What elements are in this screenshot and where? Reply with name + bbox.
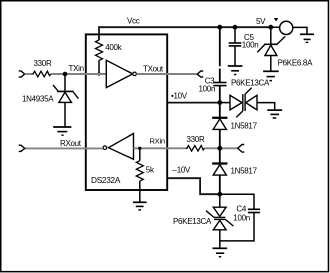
resistor R5 5k — [136, 161, 143, 181]
svg-text:1N5817: 1N5817 — [231, 167, 258, 176]
wire Z1 right lead — [257, 103, 275, 110]
wire -10V from box — [167, 178, 220, 194]
svg-text:•10V: •10V — [171, 91, 188, 100]
svg-text:P6KE13CA: P6KE13CA — [173, 217, 212, 226]
ground below R5 — [133, 201, 147, 203]
svg-text:TXout: TXout — [143, 65, 164, 74]
terminal RXin chevron — [238, 145, 245, 153]
node -10V junction — [217, 192, 222, 197]
wire C4 top branch — [220, 194, 254, 209]
svg-text:DS232A: DS232A — [91, 175, 121, 185]
wire D3 cathode lead — [219, 148, 221, 163]
svg-text:100n: 100n — [233, 214, 250, 223]
svg-text:5k: 5k — [146, 165, 155, 174]
wire R5 bottom lead — [139, 181, 141, 202]
wire RXout — [25, 147, 103, 149]
wire connector to ground — [293, 27, 307, 34]
TVS Z3 P6KE6.8A — [264, 43, 278, 45]
marker down arrow — [274, 18, 278, 22]
diode D1 1N4935A zener — [57, 90, 73, 92]
svg-text:C4: C4 — [236, 204, 246, 213]
capacitor C4 100n — [248, 208, 260, 210]
svg-text:--10V: --10V — [172, 166, 191, 175]
ground below Z3 — [263, 70, 279, 72]
wire R5 top lead — [139, 148, 141, 160]
svg-text:1N4935A: 1N4935A — [22, 94, 54, 103]
wire R4 to terminal — [204, 147, 237, 149]
wire RXin inside box — [134, 147, 168, 149]
node TXin junction — [63, 72, 68, 77]
wire C5 bottom lead — [234, 46, 236, 66]
svg-text:P6KE13CA: P6KE13CA — [231, 78, 270, 87]
wire 5V to connector — [271, 26, 280, 28]
op-amp U1A TX driver — [106, 60, 132, 87]
wire TXin net to driver input — [51, 73, 106, 75]
wire D1 cathode lead — [64, 74, 66, 91]
svg-text:5V: 5V — [256, 17, 266, 26]
wire C3 to +10V node — [219, 86, 221, 103]
wire C5 top lead — [234, 27, 236, 43]
resistor R1 400k — [96, 40, 103, 60]
TVS Z1 P6KE13CA bidirectional — [230, 95, 242, 110]
terminal RXout chevron — [19, 145, 25, 151]
wire Vcc rail — [99, 27, 271, 40]
op-amp U1B RX receiver — [109, 134, 134, 160]
wire C4 bottom branch — [220, 213, 254, 241]
terminal TXin input chevron — [19, 71, 25, 77]
wire Z3 cathode lead — [270, 27, 272, 44]
wire TXout — [136, 73, 196, 75]
svg-text:TXin: TXin — [69, 64, 84, 73]
diode D3 1N5817 — [212, 162, 227, 164]
svg-text:1N5817: 1N5817 — [231, 122, 258, 131]
svg-text:100n: 100n — [199, 85, 216, 94]
wire +10V from box — [167, 102, 220, 104]
diode D2 1N5817 — [212, 117, 227, 119]
svg-text:RXin: RXin — [150, 137, 165, 146]
junction R1/TXin — [97, 72, 100, 75]
TVS Z2 P6KE13CA bidirectional — [213, 207, 226, 216]
wire R1 lead to TXin line — [98, 60, 100, 74]
wire D2 anode to RXin node — [219, 129, 221, 148]
wire input to R2 — [25, 73, 32, 75]
wire RXin box to R4 — [167, 147, 186, 149]
svg-text:100n: 100n — [242, 41, 259, 50]
svg-text:Vcc: Vcc — [127, 17, 140, 26]
capacitor C3 100n — [213, 82, 226, 84]
node Vcc/C3 rail junction — [217, 25, 222, 30]
node +10V junction — [217, 100, 222, 105]
node C5 junction — [233, 25, 238, 30]
wire D3 anode to -10V node — [219, 175, 221, 194]
inverter bubble TX driver — [133, 72, 137, 76]
wire rail gap to C3 — [219, 69, 221, 83]
svg-text:400k: 400k — [105, 43, 122, 52]
svg-text:RXout: RXout — [60, 139, 82, 148]
svg-text:330R: 330R — [34, 59, 52, 68]
svg-text:P6KE6.8A: P6KE6.8A — [278, 58, 313, 67]
ground below Z2 — [213, 247, 228, 249]
svg-text:330R: 330R — [187, 135, 205, 144]
wire Z2 top lead — [219, 194, 221, 207]
resistor R2 330R — [32, 71, 52, 77]
resistor R4 330R — [186, 146, 205, 152]
node RXin junction — [217, 146, 222, 151]
node 5V junction — [268, 25, 273, 30]
IC U1 DS232A box — [86, 34, 167, 190]
ground right of Z1 — [267, 109, 282, 111]
terminal TXout chevron — [197, 71, 203, 77]
wire rail Vcc down to gap — [219, 27, 221, 66]
wire D1 anode lead — [64, 102, 66, 126]
ground below D1 — [53, 126, 71, 128]
connector 5V circle — [280, 21, 293, 34]
junction R5/RXin — [138, 147, 141, 150]
wire Z3 anode lead — [270, 56, 272, 71]
ground top right — [300, 33, 314, 35]
inverter bubble RX receiver — [103, 146, 107, 150]
capacitor C5 100n — [229, 42, 242, 44]
wire Z2 bottom lead — [219, 230, 221, 248]
wire D2 cathode lead — [219, 103, 221, 118]
ground below C5 — [228, 65, 243, 67]
wire Z1 left lead — [220, 102, 230, 104]
